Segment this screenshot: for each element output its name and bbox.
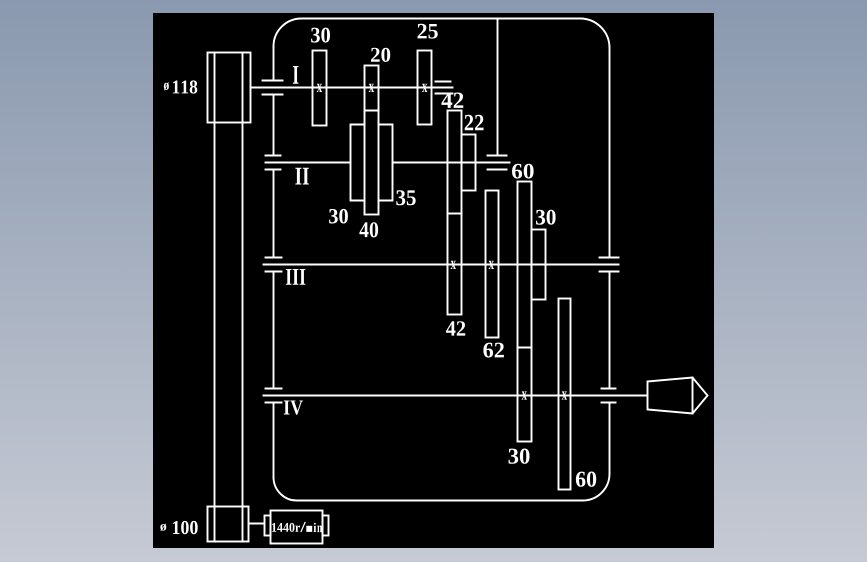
gear 22 shaft II [462, 135, 476, 191]
label motor speed n [317, 526, 322, 533]
shaft II right bearing bars [488, 156, 507, 170]
gearbox housing bottom-left corner arc [274, 478, 298, 501]
label motor speed m-block [306, 526, 312, 532]
x-mark gear 30 shaft IV [522, 391, 527, 399]
shaft IV right bearing bars [602, 389, 616, 403]
belt right edge [242, 53, 244, 542]
gear 30 shaft IV [518, 348, 532, 442]
sliding gear 30 shaft II (left wide part) [351, 125, 365, 201]
motor left stub [265, 516, 271, 536]
gear 25 shaft I [418, 51, 432, 125]
gearbox housing left wall (interrupted at bearings) [273, 47, 275, 478]
shaft III [264, 264, 619, 266]
label 25 (gear 25 shaft I) [418, 24, 438, 39]
label 100 (pulley diameter) [173, 521, 198, 534]
drawing canvas (black) [153, 13, 714, 548]
label 60 (gear 60 shaft IV) [576, 472, 596, 487]
sliding gear 60 shaft III [518, 182, 532, 348]
x-mark gear 20 shaft I [369, 84, 374, 92]
label 118 (pulley diameter) [173, 80, 197, 93]
label 22 (gear 22 shaft II) [465, 115, 484, 130]
shaft I [251, 87, 453, 89]
label 30 (gear 30 shaft IV) [509, 449, 530, 464]
label motor speed slash [300, 522, 306, 532]
label shaft III [286, 269, 306, 285]
gear 42 shaft III [448, 214, 462, 315]
shaft III left bearing bars [266, 258, 282, 272]
label 40 (sliding gear 40 shaft II) [359, 222, 378, 237]
shaft II left bearing bars [266, 156, 281, 170]
gearbox housing top edge [302, 18, 581, 20]
gearbox housing top-right corner arc [581, 19, 610, 48]
pulley 100 outer rect [208, 507, 249, 542]
x-mark gear 42 shaft III [451, 261, 456, 269]
gearbox housing top-left corner arc [273, 18, 301, 46]
label 30 (sliding gear 30 shaft II) [329, 209, 348, 224]
belt left edge [214, 53, 216, 542]
label 62 (gear 62 shaft III) [483, 343, 504, 358]
gear 62 shaft III [486, 191, 499, 338]
label 20 (gear 20 shaft I) [371, 48, 390, 62]
motor right stub [323, 516, 329, 536]
x-mark gear 25 shaft I [422, 84, 427, 92]
shaft IV left bearing bars [266, 389, 282, 403]
gearbox housing bottom edge [298, 500, 584, 502]
sliding gear 40 shaft II (center column) [365, 111, 379, 215]
label motor speed i [314, 523, 317, 532]
gear 42 shaft II [448, 111, 462, 214]
output tool holder body [648, 378, 708, 414]
motor shaft connector [249, 523, 265, 525]
pulley 118 outer rect [208, 53, 251, 123]
label motor speed 1440r part [272, 523, 300, 532]
shaft I right bearing bars [436, 82, 453, 94]
shaft IV [264, 395, 648, 397]
shaft II left segment [266, 162, 351, 164]
sliding gear 35 shaft II (right wide part) [379, 125, 393, 201]
shaft III right bearing bars [600, 258, 619, 272]
gear 60 shaft IV [559, 299, 571, 490]
motor body box [271, 511, 323, 544]
gear 30 shaft I [313, 51, 327, 126]
label diameter symbol (pulley 100) [160, 524, 166, 531]
label shaft IV [284, 401, 303, 415]
label 30 (gear 30 shaft I) [311, 28, 330, 43]
label 30 (gear 30 shaft III) [536, 210, 556, 225]
x-mark gear 62 shaft III [489, 261, 494, 269]
gear 20 shaft I [365, 66, 379, 111]
label 35 (sliding gear 35 shaft II) [396, 190, 415, 205]
sliding gear 30 shaft III [532, 230, 546, 300]
x-mark gear 60 shaft IV [562, 391, 567, 399]
gearbox housing bottom-right corner arc [584, 474, 610, 501]
x-mark gear 30 shaft I [317, 84, 322, 92]
label diameter symbol (pulley 118) [164, 82, 169, 90]
shaft II right segment [393, 162, 510, 164]
label 42 (gear 42 shaft III) [446, 321, 465, 335]
output tool holder divider [692, 378, 694, 414]
gearbox housing right wall (interrupted at bearings) [609, 48, 611, 474]
label 42 (gear 42 shaft II) [441, 93, 463, 108]
label shaft II [295, 168, 309, 185]
label 60 (gear 60 shaft III) [512, 164, 534, 179]
shaft I left bearing bars [263, 81, 283, 95]
support line above shaft II right bearing [497, 19, 499, 155]
label shaft I [293, 66, 299, 84]
